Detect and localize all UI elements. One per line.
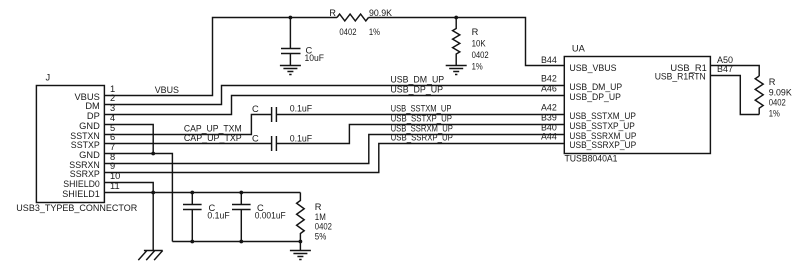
wire VBUS pin1 to top rail to chip B44 (104, 18, 564, 96)
capacitor C 0.1uF series on SSTXM (252, 104, 312, 123)
svg-text:USB_SSTXM_UP: USB_SSTXM_UP (391, 104, 452, 114)
svg-text:1M: 1M (315, 212, 326, 222)
wire USB_SSTXP_UP cap to chip B39 (276, 125, 564, 144)
svg-text:CAP_UP_TXP: CAP_UP_TXP (184, 133, 242, 143)
svg-text:6: 6 (110, 132, 115, 142)
svg-text:10uF: 10uF (305, 53, 325, 63)
svg-text:R: R (315, 202, 322, 212)
chip right pin names (655, 63, 707, 82)
svg-text:USB_DM_UP: USB_DM_UP (390, 75, 444, 85)
svg-text:GND: GND (79, 150, 100, 160)
junction top rail R 10K (454, 16, 458, 20)
junction R 1M bottom (299, 240, 303, 244)
svg-text:USB_DP_UP: USB_DP_UP (390, 85, 443, 95)
wire A50 USB_R1 to resistor (710, 66, 759, 77)
resistor R 90.9K horizontal (329, 8, 392, 37)
svg-text:J: J (46, 72, 51, 82)
connector pin names (62, 92, 100, 199)
svg-text:SSTXP: SSTXP (71, 140, 100, 150)
svg-text:GND: GND (79, 121, 100, 131)
chassis ground (138, 251, 162, 261)
wire GND pin7 to bottom rail (104, 154, 172, 242)
svg-text:USB_R1RTN: USB_R1RTN (655, 72, 706, 82)
wire resistor bottom to B47 USB_R1RTN (710, 76, 759, 115)
wire SSTXP pin6 to cap (net CAP_UP_TXP) (104, 143, 271, 145)
resistor R 10K vertical (453, 18, 489, 72)
svg-text:0.1uF: 0.1uF (207, 210, 230, 220)
wire bottom GND rail (172, 241, 300, 243)
svg-text:9.09K: 9.09K (769, 87, 793, 97)
svg-text:VBUS: VBUS (155, 85, 179, 95)
chip left pin designators (541, 55, 557, 142)
chip left pin names (569, 63, 636, 150)
connector J USB3_TYPEB_CONNECTOR body (16, 72, 137, 213)
svg-text:C: C (252, 104, 259, 114)
svg-text:90.9K: 90.9K (369, 8, 393, 18)
svg-text:SHIELD0: SHIELD0 (63, 179, 100, 189)
svg-text:R: R (472, 27, 479, 37)
svg-text:A44: A44 (541, 132, 557, 142)
svg-text:USB_DP_UP: USB_DP_UP (569, 92, 621, 102)
ground under C 10uF (280, 66, 301, 75)
svg-text:B42: B42 (541, 74, 557, 84)
svg-text:B44: B44 (541, 55, 557, 65)
resistor R 9.09K vertical (755, 76, 792, 119)
svg-text:2: 2 (110, 93, 115, 103)
svg-text:0402: 0402 (769, 98, 786, 108)
junction cap 0.1uF top (190, 191, 194, 195)
svg-text:1%: 1% (472, 61, 483, 71)
connector pin numbers 1-11 (110, 84, 120, 191)
svg-text:1%: 1% (369, 27, 380, 37)
svg-text:C: C (252, 134, 259, 144)
svg-text:A46: A46 (541, 84, 557, 94)
chip right pin designators (717, 55, 733, 74)
resistor R 1M vertical (shield RC) (297, 193, 332, 242)
wire USB_SSTXM_UP cap to chip A42 (276, 114, 564, 116)
svg-text:USB_SSTXP_UP: USB_SSTXP_UP (569, 121, 635, 131)
svg-text:1%: 1% (769, 109, 780, 119)
svg-text:A42: A42 (541, 103, 557, 113)
junction pin10/pin11 shield (151, 191, 155, 195)
svg-text:UA: UA (572, 44, 586, 54)
chip UA TUSB8040A1 body (564, 44, 710, 164)
svg-text:0.1uF: 0.1uF (290, 104, 313, 114)
svg-text:10K: 10K (472, 39, 487, 49)
wire SSRXP pin9 to chip A44 (104, 144, 564, 173)
svg-text:SHIELD1: SHIELD1 (62, 189, 100, 199)
ground under R 10K (446, 66, 467, 75)
wire SHIELD1 pin11 rail to R 1M (104, 192, 300, 194)
capacitor C 0.1uF series on SSTXP (252, 134, 312, 152)
svg-text:0402: 0402 (315, 222, 332, 232)
capacitor C 0.001uF shunt (shield RC) (232, 193, 286, 242)
junction top rail C 10uF (289, 16, 293, 20)
svg-text:0402: 0402 (472, 50, 489, 60)
svg-text:USB_SSTXP_UP: USB_SSTXP_UP (391, 114, 452, 124)
svg-text:USB_DM_UP: USB_DM_UP (569, 82, 622, 92)
svg-text:0402: 0402 (339, 27, 356, 37)
svg-text:0.001uF: 0.001uF (255, 210, 286, 220)
capacitor C 10uF shunt on VBUS rail (281, 18, 324, 66)
svg-text:DM: DM (85, 101, 99, 111)
svg-text:CAP_UP_TXM: CAP_UP_TXM (184, 124, 242, 134)
svg-text:USB_SSRXP_UP: USB_SSRXP_UP (391, 133, 453, 143)
svg-text:9: 9 (110, 161, 115, 171)
ground earth bottom (290, 242, 311, 260)
svg-text:TUSB8040A1: TUSB8040A1 (565, 153, 618, 163)
wire SSRXN pin8 to chip B40 (104, 135, 564, 164)
svg-text:USB3_TYPEB_CONNECTOR: USB3_TYPEB_CONNECTOR (16, 203, 137, 213)
svg-text:USB_VBUS: USB_VBUS (569, 63, 616, 73)
svg-text:R: R (329, 8, 336, 18)
wire SSTXN pin5 to cap (net CAP_UP_TXM) (104, 115, 271, 135)
svg-text:USB_SSRXP_UP: USB_SSRXP_UP (569, 140, 636, 150)
svg-text:USB_SSTXM_UP: USB_SSTXM_UP (569, 111, 636, 121)
junction cap 0.001uF bottom (239, 240, 243, 244)
junction cap 0.001uF top (239, 191, 243, 195)
svg-text:R: R (769, 77, 776, 87)
junction pin4/pin7 GND (151, 152, 155, 156)
wire chassis stub (152, 193, 154, 251)
junction cap 0.1uF bottom (190, 240, 194, 244)
svg-text:5%: 5% (315, 232, 327, 242)
wire SHIELD0 pin10 down to pin11 row (104, 183, 153, 193)
svg-text:0.1uF: 0.1uF (290, 134, 313, 144)
svg-text:SSRXP: SSRXP (70, 169, 100, 179)
svg-text:B39: B39 (541, 113, 557, 123)
wire DM pin2 to chip B42 (104, 86, 564, 105)
capacitor C 0.1uF shunt (shield RC) (183, 193, 230, 242)
wire GND pin4 down to pin7 row (104, 125, 153, 154)
svg-text:DP: DP (87, 111, 100, 121)
wire DP pin3 to chip A46 (104, 96, 564, 115)
